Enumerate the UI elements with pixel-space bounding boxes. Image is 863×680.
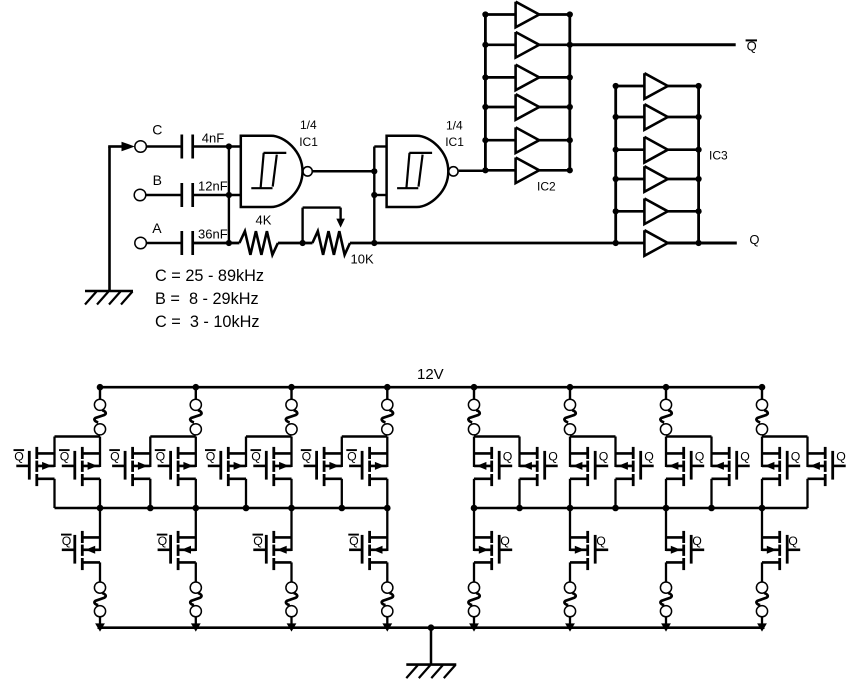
node IC2 in 5 [482, 137, 488, 143]
wire 12V rail [98, 386, 765, 389]
arrow to ground rail 2 [191, 623, 201, 631]
transistor Q1 upper [16, 465, 29, 468]
wire T13 source [665, 479, 667, 508]
svg-text:Q: Q [749, 232, 759, 247]
buffer IC2 unit 6 [485, 169, 515, 172]
inductor L3 top [290, 387, 292, 399]
node left bus junction 4 [243, 505, 250, 512]
svg-text:B: B [153, 172, 162, 188]
terminal C [135, 141, 147, 153]
wire T16 source [806, 479, 808, 508]
inductor L4 top [386, 387, 388, 399]
node gate2 in C [371, 240, 377, 246]
node 12V rail tap 2 [193, 384, 200, 391]
wire lower Q24 drain [761, 508, 763, 551]
node right bus junction 4 [612, 505, 619, 512]
buffer IC3 unit 1 [616, 85, 645, 88]
node IC3 in 1 [613, 83, 619, 89]
wire IC3 input bus [614, 86, 617, 243]
node IC3 in 5 [613, 208, 619, 214]
svg-text:Q: Q [503, 450, 513, 464]
wire ground stem [430, 628, 433, 665]
transistor Q17 lower [62, 548, 75, 551]
buffer IC3 unit 6 [644, 230, 667, 256]
transistor Q4 upper [158, 465, 171, 468]
wire gate2 lower input stub [374, 194, 386, 196]
buffer IC2 unit 5 [485, 139, 515, 142]
wire lower Q20 drain [386, 508, 388, 551]
node 12V rail tap 5 [471, 384, 478, 391]
transistor Q18 lower [158, 548, 171, 551]
wire capacitor A to resistor [193, 242, 240, 245]
node IC2 in 1 [482, 11, 488, 17]
node pot left junction [300, 240, 306, 246]
transistor Q22 lower [595, 548, 608, 551]
inductor L2 top [195, 387, 197, 399]
transistor Q2 upper [62, 465, 75, 468]
wire gate2 input bus [373, 147, 375, 244]
ground G1 [85, 290, 133, 293]
svg-text:1/4: 1/4 [446, 119, 463, 133]
capacitor 36nF [180, 231, 183, 255]
wire left output bus [55, 507, 388, 510]
op-amp U1 nand gate IC1a [241, 136, 303, 207]
wire T7 source [341, 479, 343, 508]
wire T10 source [518, 479, 520, 508]
node IC2 in 2 [482, 42, 488, 48]
wire gate2 upper input stub [374, 145, 386, 147]
node IC2 out 4 [567, 104, 573, 110]
transistor Q10 upper [545, 465, 558, 468]
inductor L7 top [665, 387, 667, 399]
wire T5 source [245, 479, 247, 508]
wire T7 drain [341, 437, 343, 468]
resistor 4K [239, 231, 278, 255]
node left bus junction 7 [384, 505, 391, 512]
node IC3 out 5 [696, 208, 702, 214]
wire T8 source [386, 479, 388, 508]
transistor Q8 upper [349, 465, 362, 468]
node IC2 out 5 [567, 137, 573, 143]
wire Qbar output line [570, 43, 736, 46]
inductor L12 bottom [382, 582, 393, 593]
svg-text:Q: Q [251, 450, 261, 464]
node gate2 in A [371, 168, 377, 174]
svg-text:12V: 12V [417, 366, 444, 383]
wire lower Q17 drain [99, 508, 101, 551]
wire T15 source [761, 479, 763, 508]
wire pair top link cell 2 [150, 435, 196, 438]
svg-text:B = 8 - 29kHz: B = 8 - 29kHz [155, 290, 259, 308]
wire pair top link cell 6 [570, 435, 616, 438]
svg-text:Q: Q [644, 450, 654, 464]
transistor Q14 upper [737, 465, 750, 468]
svg-text:Q: Q [836, 450, 846, 464]
svg-text:Q: Q [110, 450, 120, 464]
inductor L10 bottom [190, 582, 201, 593]
node IC3 in 6 [613, 240, 619, 246]
node right bus junction 5 [663, 505, 670, 512]
transistor Q21 lower [499, 548, 512, 551]
wire T6 source [290, 479, 292, 508]
wire T3 source [149, 479, 151, 508]
transistor Q9 upper [499, 465, 512, 468]
wire T6 drain [290, 437, 292, 468]
wire T16 drain [806, 437, 808, 468]
node 12V rail tap 7 [663, 384, 670, 391]
wire T8 drain [386, 437, 388, 468]
wire lower Q23 source [665, 562, 667, 582]
wire lower Q19 source [290, 562, 292, 582]
wire IC2 output bus [568, 15, 571, 171]
svg-text:C = 3 - 10kHz: C = 3 - 10kHz [155, 313, 260, 331]
node IC3 in 3 [613, 147, 619, 153]
node right bus junction 6 [708, 505, 715, 512]
wire T14 source [710, 479, 712, 508]
wire 4K to pot [278, 242, 313, 245]
resistor 10K potentiometer [312, 231, 350, 255]
wire IC2 input bus [484, 15, 487, 171]
transistor Q13 upper [691, 465, 704, 468]
node cap B junction [226, 192, 232, 198]
node right bus junction 1 [471, 505, 478, 512]
wire T12 source [614, 479, 616, 508]
transistor Q6 upper [253, 465, 266, 468]
transistor Q12 upper [641, 465, 654, 468]
wire T14 drain [710, 437, 712, 468]
wire T13 drain [665, 437, 667, 468]
wire capacitor B to gate input [193, 194, 241, 197]
svg-text:A: A [152, 220, 162, 236]
node right bus junction 2 [516, 505, 523, 512]
wire T2 drain [99, 437, 101, 468]
buffer IC3 unit 3 [616, 148, 645, 151]
svg-text:Q: Q [14, 450, 24, 464]
arrow to ground rail 6 [565, 623, 575, 631]
svg-text:Q: Q [500, 534, 510, 548]
inductor L6 top [569, 387, 571, 399]
svg-text:IC2: IC2 [537, 179, 556, 193]
wire terminal B to capacitor [146, 194, 182, 197]
node IC3 out 3 [696, 147, 702, 153]
svg-text:Q: Q [548, 450, 558, 464]
node left bus junction 2 [147, 505, 154, 512]
wire lower Q18 drain [195, 508, 197, 551]
inductor L14 bottom [564, 582, 575, 593]
node cap C junction [226, 143, 232, 149]
wire lower Q18 source [195, 562, 197, 582]
inductor L8 top [761, 387, 763, 399]
wire terminal A to capacitor [146, 242, 181, 245]
svg-text:10K: 10K [351, 252, 374, 267]
arrow to ground rail 8 [757, 623, 767, 631]
node IC3 in 4 [613, 176, 619, 182]
wire T4 drain [195, 437, 197, 468]
wire ground rail [98, 626, 765, 629]
wire terminal C to capacitor [146, 145, 181, 148]
node IC3 out 1 [696, 83, 702, 89]
svg-text:Q: Q [60, 450, 70, 464]
wire pair top link cell 5 [474, 435, 520, 438]
ground G2 [406, 663, 456, 666]
buffer IC3 unit 5 [616, 210, 645, 213]
wire lower Q24 source [761, 562, 763, 582]
node right bus junction 7 [759, 505, 766, 512]
wire pot wiper loop [301, 208, 303, 242]
svg-text:Q: Q [156, 450, 166, 464]
wire lower Q21 source [473, 562, 475, 582]
svg-text:C = 25 - 89kHz: C = 25 - 89kHz [155, 267, 264, 285]
wire lower Q22 drain [569, 508, 571, 551]
node 12V rail tap 8 [759, 384, 766, 391]
buffer IC2 unit 4 [485, 106, 515, 109]
arrow into input terminal [122, 142, 135, 152]
wire lower Q23 drain [665, 508, 667, 551]
wire pair top link cell 4 [342, 435, 388, 438]
transistor Q23 lower [691, 548, 704, 551]
transistor Q24 lower [787, 548, 800, 551]
node left bus junction 5 [288, 505, 295, 512]
node cap A junction [226, 240, 232, 246]
svg-text:36nF: 36nF [198, 226, 228, 241]
transistor Q7 upper [304, 465, 317, 468]
wire pair top link cell 8 [762, 435, 808, 438]
inductor L5 top [473, 387, 475, 399]
inductor L11 bottom [286, 582, 297, 593]
node IC2 out 1 [567, 11, 573, 17]
node IC2 in 6 [482, 167, 488, 173]
wire T10 drain [518, 437, 520, 468]
svg-text:Q: Q [695, 450, 705, 464]
svg-text:C: C [152, 121, 162, 137]
svg-text:IC3: IC3 [709, 149, 728, 163]
node IC2 out 6 [567, 167, 573, 173]
svg-text:4K: 4K [256, 212, 272, 227]
wire pair top link cell 3 [246, 435, 292, 438]
buffer IC3 unit 4 [616, 178, 645, 181]
buffer IC2 unit 1 [485, 13, 515, 16]
wire right output bus [474, 507, 808, 510]
wire T1 drain [53, 437, 55, 468]
buffer IC3 unit 2 [616, 116, 645, 119]
node 12V rail tap 6 [567, 384, 574, 391]
node right bus junction 3 [567, 505, 574, 512]
node IC2 out 2 [567, 42, 573, 48]
transistor Q11 upper [595, 465, 608, 468]
svg-text:12nF: 12nF [198, 179, 228, 194]
node IC2 out 3 [567, 74, 573, 80]
svg-text:Q: Q [349, 534, 359, 548]
wire gate2 output to IC2 bus [459, 170, 486, 173]
node 12V rail tap 3 [288, 384, 295, 391]
svg-text:IC1: IC1 [445, 135, 464, 149]
wire T9 drain [473, 437, 475, 468]
wire IC3 output bus [697, 86, 700, 243]
capacitor 4nF [180, 135, 183, 159]
node left bus junction 1 [97, 505, 104, 512]
transistor Q15 upper [787, 465, 800, 468]
node IC3 out 4 [696, 176, 702, 182]
wire T1 source [53, 479, 55, 508]
svg-text:Q: Q [158, 534, 168, 548]
wire lower Q21 drain [473, 508, 475, 551]
svg-text:4nF: 4nF [202, 131, 224, 146]
svg-text:Q: Q [347, 450, 357, 464]
svg-text:Q: Q [788, 534, 798, 548]
wire T3 drain [149, 437, 151, 468]
wire T9 source [473, 479, 475, 508]
inductor L1 top [99, 387, 101, 399]
node left bus junction 6 [339, 505, 346, 512]
op-amp U2 nand gate IC1b [387, 136, 449, 207]
svg-text:Q: Q [302, 450, 312, 464]
wire lower Q19 drain [290, 508, 292, 551]
wire T11 drain [569, 437, 571, 468]
node 12V rail tap 4 [384, 384, 391, 391]
arrow to ground rail 1 [95, 623, 105, 631]
arrow to ground rail 5 [469, 623, 479, 631]
transistor Q19 lower [253, 548, 266, 551]
buffer IC2 unit 2 [485, 43, 515, 46]
node IC2 in 4 [482, 104, 488, 110]
svg-text:IC1: IC1 [299, 135, 318, 149]
wire T15 drain [761, 437, 763, 468]
svg-text:Q: Q [253, 534, 263, 548]
buffer IC2 unit 3 [485, 76, 515, 79]
node left bus junction 3 [193, 505, 200, 512]
wire junction bus caps [228, 147, 230, 244]
wire lower Q17 source [99, 562, 101, 582]
arrow to ground rail 7 [661, 623, 671, 631]
svg-text:Q: Q [791, 450, 801, 464]
transistor Q20 lower [349, 548, 362, 551]
svg-text:Q: Q [692, 534, 702, 548]
wire pair top link cell 1 [55, 435, 101, 438]
node IC3 in 2 [613, 114, 619, 120]
wire T4 source [195, 479, 197, 508]
wire T12 drain [614, 437, 616, 468]
node gate2 in B [371, 192, 377, 198]
inductor L16 bottom [756, 582, 767, 593]
transistor Q16 upper [833, 465, 846, 468]
svg-text:Q: Q [599, 450, 609, 464]
arrow to ground rail 4 [382, 623, 392, 631]
wire pot to node Osc2in [350, 242, 644, 245]
wire Q output line [668, 242, 737, 245]
wire pair top link cell 7 [666, 435, 712, 438]
svg-text:Q: Q [596, 534, 606, 548]
arrow to ground rail 3 [287, 623, 297, 631]
arrow pot wiper [336, 219, 345, 228]
svg-text:Q: Q [62, 534, 72, 548]
svg-text:Q: Q [206, 450, 216, 464]
inductor L15 bottom [660, 582, 671, 593]
wire input left vertical [108, 147, 111, 292]
transistor Q3 upper [112, 465, 125, 468]
svg-text:Q: Q [740, 450, 750, 464]
terminal A [135, 237, 147, 249]
wire lower Q22 source [569, 562, 571, 582]
node ground tap [428, 624, 435, 631]
node IC2 in 3 [482, 74, 488, 80]
node IC3 out 2 [696, 114, 702, 120]
inductor L9 bottom [94, 582, 105, 593]
wire lower Q20 source [386, 562, 388, 582]
wire T5 drain [245, 437, 247, 468]
wire gate1 output [313, 170, 374, 173]
node IC3 out 6 [696, 240, 702, 246]
svg-text:1/4: 1/4 [300, 118, 317, 132]
node 12V rail tap 1 [97, 384, 104, 391]
wire T2 source [99, 479, 101, 508]
terminal B [134, 189, 146, 201]
wire T11 source [569, 479, 571, 508]
inductor L13 bottom [468, 582, 479, 593]
transistor Q5 upper [208, 465, 221, 468]
wire capacitor C to gate input [193, 145, 241, 148]
capacitor 12nF [180, 183, 183, 207]
